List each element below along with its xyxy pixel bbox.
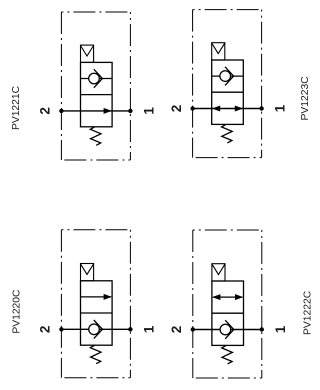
check valve symbol (bottom position of PV1222C) — [220, 320, 234, 339]
svg-text:1: 1 — [141, 325, 156, 333]
wire: flow line from port 2 to port 1 (PV1220C) — [61, 328, 130, 330]
bidirectional flow arrow (top position of PV1222C) — [212, 294, 243, 300]
check valve symbol (top position of PV1223C) — [212, 67, 244, 86]
node: port 1 junction dot (PV1221C) — [128, 109, 132, 113]
node: port 2 junction dot (PV1221C) — [59, 109, 63, 113]
flow path arrow (free flow, top position of PV1220C) — [81, 294, 112, 300]
svg-text:2: 2 — [38, 326, 53, 334]
return spring below PV1223C — [222, 124, 233, 142]
enclosure boundary (dash-dot) for valve PV1220C — [61, 230, 130, 378]
check valve symbol (top position of PV1221C) — [81, 69, 113, 88]
node: port 1 junction dot (PV1222C) — [260, 327, 264, 331]
enclosure boundary (dash-dot) for valve PV1222C — [193, 230, 262, 378]
return spring below PV1221C — [90, 127, 101, 146]
enclosure boundary (dash-dot) for valve PV1223C — [193, 10, 262, 158]
svg-text:1: 1 — [141, 107, 156, 115]
node: port 2 junction dot (PV1222C) — [191, 327, 195, 331]
pneumatic pilot actuator (box with triangle) on PV1222C — [212, 264, 225, 281]
flow path arrow (free flow, bottom position of PV1221C) — [104, 108, 112, 114]
pneumatic pilot actuator (box with triangle) on PV1221C — [81, 45, 94, 62]
wire: flow line from port 2 to port 1 (PV1222C) — [193, 329, 262, 331]
svg-text:PV1221C: PV1221C — [11, 85, 22, 130]
valve PV1223C body: two-position boxes — [212, 60, 244, 124]
node: port 2 junction dot (PV1220C) — [59, 327, 63, 331]
svg-text:PV1220C: PV1220C — [11, 289, 22, 334]
svg-text:2: 2 — [38, 107, 53, 115]
enclosure boundary (dash-dot) for valve PV1221C — [61, 12, 130, 160]
pneumatic pilot actuator (box with triangle) on PV1220C — [81, 264, 94, 281]
return spring below PV1220C — [90, 345, 101, 364]
node: port 2 junction dot (PV1223C) — [190, 106, 194, 110]
valve PV1220C body: two-position boxes — [81, 281, 113, 345]
pneumatic pilot actuator (box with triangle) on PV1223C — [212, 43, 225, 60]
node: port 1 junction dot (PV1220C) — [128, 327, 132, 331]
svg-text:PV1222C: PV1222C — [303, 290, 314, 335]
valve PV1221C body: two-position boxes — [81, 62, 113, 126]
valve PV1222C body: two-position boxes — [212, 281, 244, 345]
node: port 1 junction dot (PV1223C) — [259, 106, 263, 110]
wire: flow line from port 2 to port 1 (PV1221C) — [61, 110, 130, 112]
check valve symbol (bottom position of PV1220C) — [89, 320, 103, 339]
bidirectional flow arrow (bottom position of PV1223C) — [212, 106, 243, 112]
return spring below PV1222C — [222, 345, 233, 364]
svg-text:2: 2 — [169, 105, 184, 113]
svg-text:1: 1 — [273, 325, 288, 333]
svg-text:1: 1 — [273, 104, 288, 112]
svg-text:2: 2 — [169, 326, 184, 334]
svg-text:PV1223C: PV1223C — [300, 76, 311, 121]
wire: flow line from port 2 to port 1 (PV1223C) — [193, 108, 262, 110]
